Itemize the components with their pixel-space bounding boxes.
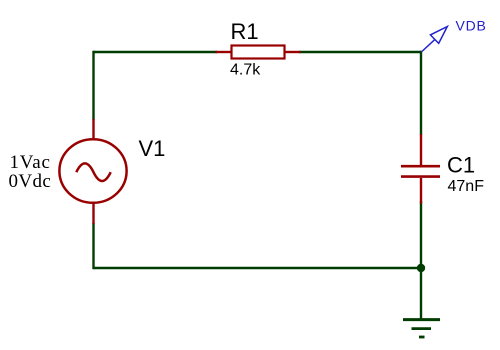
wire right vertical upper: [420, 51, 422, 135]
probe marker VDB: [421, 27, 447, 53]
wire top-left horizontal: [94, 51, 218, 53]
svg-text:4.7k: 4.7k: [230, 62, 261, 79]
svg-text:R1: R1: [231, 19, 259, 44]
wire bottom horizontal: [94, 267, 422, 269]
ground: [403, 320, 440, 337]
wire ground stub: [420, 268, 422, 319]
source V1: [59, 119, 126, 224]
svg-text:C1: C1: [447, 153, 475, 178]
resistor R1: [216, 46, 301, 59]
wire right vertical lower: [420, 201, 422, 268]
svg-text:47nF: 47nF: [448, 178, 485, 195]
svg-text:VDB: VDB: [456, 18, 487, 34]
wire left vertical upper: [92, 51, 94, 120]
svg-text:V1: V1: [139, 136, 166, 161]
svg-text:1Vac: 1Vac: [10, 152, 51, 173]
capacitor C1: [401, 134, 440, 204]
svg-text:0Vdc: 0Vdc: [9, 171, 52, 192]
junction dot: [417, 264, 425, 272]
wire top-right horizontal: [299, 51, 421, 53]
wire left vertical lower: [92, 223, 94, 269]
